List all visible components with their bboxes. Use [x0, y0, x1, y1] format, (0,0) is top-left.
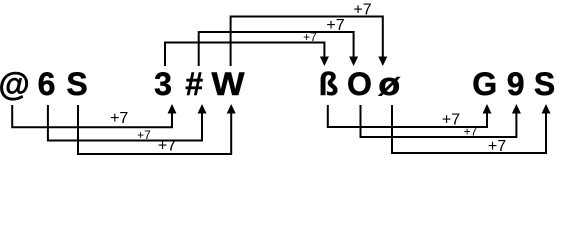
svg-text:+7: +7 [158, 138, 176, 155]
svg-text:O: O [347, 66, 372, 102]
wire @ to 3 (bottom-left inner) [12, 105, 172, 127]
svg-text:+7: +7 [326, 17, 344, 34]
arrowhead onto G [483, 104, 492, 114]
arrowhead onto ø [378, 57, 387, 67]
svg-text:#: # [185, 66, 203, 102]
svg-text:3: 3 [154, 66, 172, 102]
arrowhead onto O [349, 57, 358, 67]
arrowhead onto 3 [168, 104, 177, 114]
arrowhead onto # [198, 104, 207, 114]
svg-text:S: S [534, 66, 555, 102]
svg-text:+7: +7 [110, 110, 128, 127]
svg-text:9: 9 [507, 66, 525, 102]
svg-text:+7: +7 [464, 125, 478, 139]
svg-text:+7: +7 [488, 138, 506, 155]
svg-text:6: 6 [38, 66, 56, 102]
wire 6 to # (bottom-left middle) [48, 105, 202, 141]
svg-text:@: @ [0, 66, 30, 102]
wire ß to G (bottom-right inner) [328, 105, 487, 127]
svg-text:G: G [472, 66, 497, 102]
svg-text:S: S [66, 66, 87, 102]
svg-text:+7: +7 [137, 128, 151, 142]
wire W to ø (top outer) [231, 17, 383, 67]
wire O to 9 (bottom-right middle) [361, 105, 517, 137]
svg-text:+7: +7 [353, 2, 371, 19]
svg-text:+7: +7 [442, 112, 460, 129]
wire 3 to ß (top inner) [165, 43, 324, 67]
svg-text:ø: ø [378, 66, 401, 102]
arrowhead onto 9 [512, 104, 521, 114]
wire S to W (bottom-left outer) [78, 105, 231, 154]
arrowhead onto ß [320, 57, 329, 67]
arrowhead onto S [542, 104, 551, 114]
svg-text:ß: ß [319, 66, 339, 102]
arrowhead onto W [227, 104, 236, 114]
wire # to O (top middle) [199, 32, 354, 66]
wire ø to S (bottom-right outer) [392, 105, 546, 153]
svg-text:W: W [212, 66, 246, 102]
